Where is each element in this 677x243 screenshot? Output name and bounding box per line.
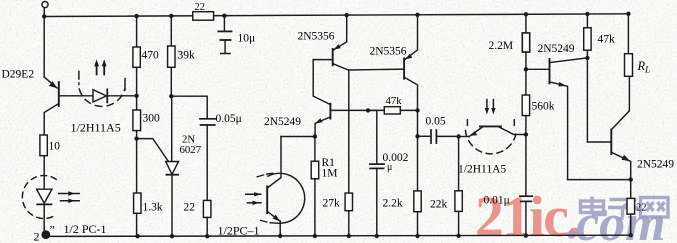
node K emitter bus / R22out top <box>629 177 633 181</box>
svg-text:22k: 22k <box>430 199 448 211</box>
input terminal + <box>42 2 48 8</box>
PUT 2N6027 <box>166 162 179 175</box>
node top rail / Q2 emitter <box>345 13 349 17</box>
node top rail / Q4 emitter <box>415 13 419 17</box>
svg-text:2N5249: 2N5249 <box>538 43 575 55</box>
LED of 1/2 H11A5 (right) <box>93 90 106 102</box>
node ground rail / PUT cathode <box>170 234 174 238</box>
PUT gate wire <box>137 139 169 162</box>
PC-1 dashed circle <box>22 176 56 219</box>
resistor 22 (mid) <box>203 200 211 217</box>
svg-text:560k: 560k <box>532 101 555 113</box>
resistor R1 1M <box>314 137 316 162</box>
phototransistor 1/2 PC-1 (mid) <box>266 186 268 213</box>
svg-text:1.3k: 1.3k <box>143 202 163 214</box>
transistor 2N5356 (Q2) <box>332 49 334 65</box>
node top rail / R39k top <box>169 14 173 18</box>
svg-text:47k: 47k <box>598 34 616 46</box>
svg-text:1/2H11A5: 1/2H11A5 <box>458 164 506 176</box>
svg-text:22: 22 <box>195 2 206 13</box>
resistor 22 (output) <box>627 198 635 214</box>
phototransistor 1/2 H11A5 (right) <box>459 136 469 138</box>
transistor D29E2 collector <box>44 104 59 136</box>
capacitor 0.01u <box>525 135 527 196</box>
node ground rail / C0.01u <box>524 233 528 237</box>
resistor 2.2M column <box>525 14 527 33</box>
resistor 560k <box>522 95 529 116</box>
resistor 300 <box>133 110 141 131</box>
wire Q2 collector to Q4 base <box>349 68 404 71</box>
capacitor 0.05u <box>200 118 215 120</box>
node J Q3 emitter / R1 top <box>313 134 317 138</box>
svg-text:2.2M: 2.2M <box>489 40 514 52</box>
resistor 39k column / PUT anode <box>170 16 172 46</box>
resistor 1.3k <box>134 193 141 213</box>
resistor 470 column <box>136 16 138 47</box>
node ground rail / C0.002u <box>375 234 379 238</box>
PC-1 mid light arrows <box>246 193 261 195</box>
node ground rail / R22k <box>456 234 460 238</box>
node ground rail / R1.3k <box>135 234 139 238</box>
svg-text:D29E2: D29E2 <box>2 69 35 81</box>
svg-text:27k: 27k <box>323 198 341 210</box>
svg-text:47k: 47k <box>386 95 403 107</box>
node L Q5 collector / R47k bottom <box>585 56 589 60</box>
node top rail / R2.2M top <box>524 12 528 16</box>
H11A5 LED base wire from D29E2 <box>59 95 93 97</box>
node F C0.05 left <box>415 134 419 138</box>
wire LED cathode to node <box>107 95 136 97</box>
wire collector to R1 node <box>281 136 315 138</box>
svg-text:1/2H11A5: 1/2H11A5 <box>71 121 121 135</box>
svg-text:6027: 6027 <box>180 144 202 156</box>
H11A5 right circle dashes <box>466 131 517 154</box>
node C R300-R1.3k / PUT gate <box>134 136 138 140</box>
capacitor 0.05 (coupling) <box>418 135 431 137</box>
svg-text:0.01μ: 0.01μ <box>484 195 510 207</box>
resistor 10 <box>40 135 47 156</box>
svg-text:10: 10 <box>49 141 61 153</box>
svg-text:2N5356: 2N5356 <box>370 46 407 58</box>
node top rail corner / RL top <box>626 12 630 16</box>
transistor 2N5249 (Q3) <box>329 104 331 119</box>
node ground rail / U3 emitter <box>278 234 282 238</box>
svg-text:2N5249: 2N5249 <box>264 116 301 128</box>
resistor 47k (horizontal) <box>368 109 384 111</box>
bottom ground rail <box>44 235 630 236</box>
capacitor 0.002u <box>368 110 377 163</box>
resistor 22 (top rail, series) <box>193 12 214 21</box>
node ground rail / R1 <box>313 234 317 238</box>
svg-text:2: 2 <box>34 230 40 243</box>
resistor 27k <box>345 193 352 211</box>
node top rail / input terminal <box>42 14 46 18</box>
svg-text:2N5249: 2N5249 <box>637 159 674 171</box>
node I Q5 base / R2.2M-R560k <box>524 67 528 71</box>
svg-text:470: 470 <box>142 50 160 62</box>
svg-text:10μ: 10μ <box>238 33 256 45</box>
svg-text:”: ” <box>50 223 55 237</box>
H11A5 light arrows (up) <box>96 65 98 75</box>
transistor 2N5249 (Q5) <box>549 59 551 83</box>
node ground rail / R2.2k <box>415 234 419 238</box>
watermark 21ic.com <box>475 184 666 243</box>
capacitor 10u <box>223 16 225 31</box>
transistor 2N5356 (Q4) <box>403 58 405 78</box>
wire R10 to LED <box>43 156 45 189</box>
svg-text:μ: μ <box>387 162 392 173</box>
node B R39k bottom / PUT anode <box>169 94 173 98</box>
svg-text:2N5356: 2N5356 <box>298 31 335 43</box>
resistor RL <box>625 54 633 77</box>
top supply rail <box>44 14 628 17</box>
svg-text:1M: 1M <box>322 168 338 180</box>
svg-text:1/2 PC-1: 1/2 PC-1 <box>64 222 107 236</box>
node E R47k right / Q4 collector <box>415 108 419 112</box>
resistor 2.2k <box>414 191 421 212</box>
svg-text:0.05μ: 0.05μ <box>216 113 242 125</box>
svg-text:1/2PC–1: 1/2PC–1 <box>218 224 260 238</box>
node top rail / C10u top <box>222 14 226 18</box>
node H U4 collector / C0.01u top <box>524 132 528 136</box>
svg-text:22: 22 <box>636 203 647 214</box>
node ground rail / R27k <box>347 234 351 238</box>
PC-1 light arrows <box>59 193 79 195</box>
transistor 2N5249 (Q6) <box>610 130 612 155</box>
node top rail / R47k top <box>585 12 589 16</box>
transistor D29E2 emitter <box>44 77 57 88</box>
svg-text:300: 300 <box>143 113 161 125</box>
PC-1 mid circle <box>268 173 305 223</box>
watermark chinese chars <box>581 197 669 219</box>
svg-text:22: 22 <box>184 202 196 214</box>
H11A5 right light arrows (down) <box>486 100 488 109</box>
node A LED cathode / R470-R300 <box>134 94 138 98</box>
wire base Q5 <box>526 68 549 70</box>
transistor D29E2 base bar <box>58 82 60 106</box>
node G C0.05 right / R22k top <box>456 134 460 138</box>
H11A5 dashed circle <box>79 89 124 106</box>
resistor 22k <box>458 137 460 191</box>
svg-text:39k: 39k <box>178 50 196 62</box>
wire 39k node to 0.05u <box>171 96 207 118</box>
node ground rail / R22out <box>629 233 633 237</box>
wire terminal to emitter of D29E2 <box>43 8 45 77</box>
node ground rail / R22 mid <box>205 234 209 238</box>
svg-text:2.2k: 2.2k <box>383 198 403 210</box>
node D Q3 base / R47k left <box>366 108 370 112</box>
svg-text:0.05: 0.05 <box>426 116 446 128</box>
wire LED to bottom terminal <box>43 204 45 236</box>
node top rail / R470 top <box>134 14 138 18</box>
bottom terminal blob <box>41 230 50 239</box>
LED of 1/2 PC-1 (down) <box>37 189 52 203</box>
